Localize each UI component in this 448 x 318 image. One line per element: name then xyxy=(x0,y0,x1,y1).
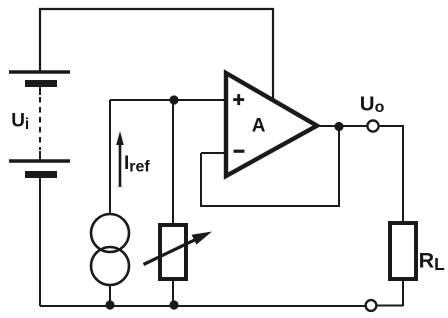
wire battery negative to bottom rail xyxy=(39,178,41,306)
variable resistor R1 body xyxy=(160,225,186,279)
variable resistor R1 arrow xyxy=(144,232,213,265)
wire stub below cell 1 xyxy=(39,87,41,95)
svg-text:RL: RL xyxy=(419,248,446,274)
current source I1 circle 2 xyxy=(91,247,129,285)
arrow I_ref xyxy=(116,131,124,187)
wire R_L bottom lead xyxy=(402,279,404,306)
wire variable resistor top lead xyxy=(172,100,174,225)
wire bottom rail xyxy=(40,305,366,307)
battery U_i cell 1 thick plate xyxy=(25,80,57,87)
junction dot current source on bottom rail xyxy=(105,300,114,309)
wire output terminal to R_L top xyxy=(379,126,403,223)
resistor R_L body xyxy=(390,223,416,279)
wire feedback loop xyxy=(201,127,339,206)
junction dot variable resistor on bottom rail xyxy=(169,300,178,309)
dashed wire between battery cells xyxy=(39,97,41,150)
wire current source to bottom rail xyxy=(109,285,111,306)
svg-text:Uo: Uo xyxy=(360,92,385,116)
terminal bottom open circle xyxy=(366,300,377,311)
battery U_i cell 1 long plate xyxy=(9,70,70,73)
battery U_i cell 2 thick plate xyxy=(25,171,57,178)
wire op-amp output xyxy=(316,125,367,127)
terminal U_o open circle xyxy=(367,120,378,131)
op-amp U1 triangle xyxy=(226,73,317,176)
wire non-inverting input from node A xyxy=(110,99,226,101)
current source I1 circle 1 xyxy=(91,214,129,252)
svg-text:A: A xyxy=(252,115,266,136)
op-amp plus input marking xyxy=(233,94,244,105)
battery U_i cell 2 long plate xyxy=(9,159,70,162)
wire inverting input stub xyxy=(201,152,226,154)
svg-text:Iref: Iref xyxy=(124,153,150,175)
junction dot node at variable resistor top xyxy=(169,95,178,104)
wire variable resistor bottom lead xyxy=(172,279,174,306)
junction dot output node xyxy=(334,122,343,131)
wire top rail from battery positive to op-amp supply xyxy=(40,9,273,99)
op-amp minus input marking xyxy=(234,150,245,153)
wire node A vertical to current source xyxy=(109,100,111,215)
wire bottom terminal to R_L xyxy=(377,305,404,307)
wire stub above cell 2 xyxy=(39,151,41,161)
svg-text:Ui: Ui xyxy=(11,110,29,133)
